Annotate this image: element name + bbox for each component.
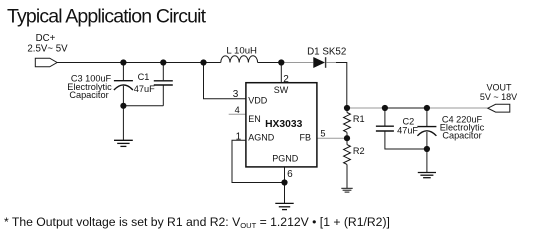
svg-text:R1: R1 [353,114,365,124]
svg-text:L 10uH: L 10uH [226,45,257,56]
svg-text:1: 1 [236,131,242,142]
svg-text:2: 2 [283,74,289,85]
svg-text:Capacitor: Capacitor [442,131,481,141]
svg-text:* The Output voltage is set by: * The Output voltage is set by R1 and R2… [4,215,390,230]
svg-text:Typical Application Circuit: Typical Application Circuit [7,6,207,28]
svg-text:2.5V~ 5V: 2.5V~ 5V [27,44,68,55]
svg-text:4: 4 [235,105,240,115]
svg-text:47uF: 47uF [397,125,418,135]
svg-text:D1 SK52: D1 SK52 [307,47,346,58]
svg-text:47uF: 47uF [134,84,155,94]
svg-text:Capacitor: Capacitor [69,90,108,100]
svg-text:VDD: VDD [248,95,268,105]
svg-text:SW: SW [274,85,289,95]
svg-text:PGND: PGND [272,153,299,163]
svg-text:HX3033: HX3033 [265,119,302,130]
svg-text:5: 5 [320,128,325,138]
svg-text:3: 3 [233,89,239,100]
svg-text:VOUT: VOUT [486,82,512,92]
svg-text:EN: EN [248,114,261,124]
svg-text:R2: R2 [353,146,365,156]
svg-text:DC+: DC+ [36,33,56,44]
svg-text:C1: C1 [138,72,150,82]
svg-text:AGND: AGND [248,132,275,142]
svg-text:5V ~ 18V: 5V ~ 18V [480,92,517,102]
svg-text:6: 6 [287,169,293,180]
svg-text:FB: FB [299,132,311,142]
